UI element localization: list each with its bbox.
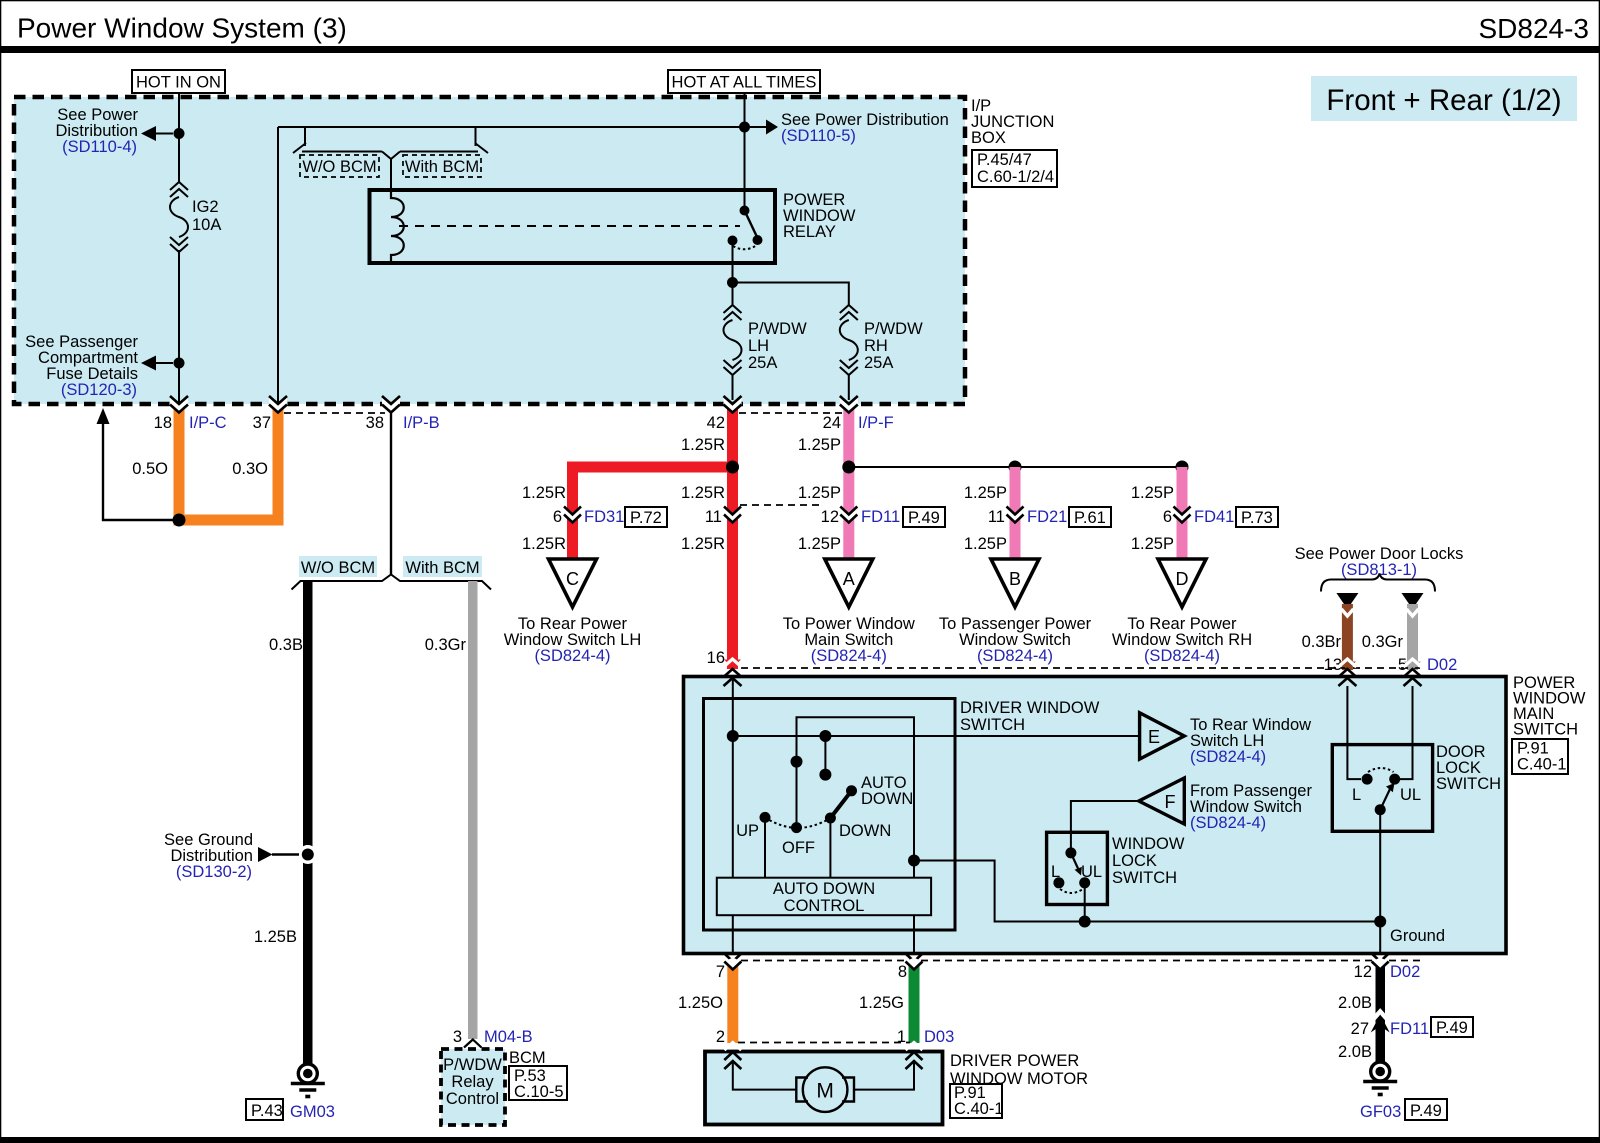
wire 0.3B black down to ground GM03 (303, 581, 313, 1064)
wires into door lock switch (1347, 686, 1361, 779)
wire from connector 38 down to option split (390, 413, 392, 575)
svg-text:P.73: P.73 (1241, 509, 1273, 527)
I/P junction box (dashed light-blue box) (14, 97, 965, 404)
connector pin 24 I/P-F (823, 396, 894, 432)
connector D03 dashed link (738, 1042, 910, 1044)
wire: WLS output to ground bus (1084, 883, 1086, 922)
svg-text:LH: LH (748, 337, 769, 355)
svg-text:1.25P: 1.25P (964, 535, 1007, 553)
wire: bus to triangle E (733, 735, 1140, 737)
svg-text:42: 42 (707, 414, 725, 432)
wire: contact stub (824, 736, 826, 775)
svg-text:UP: UP (736, 822, 759, 840)
svg-text:D03: D03 (924, 1028, 954, 1046)
svg-text:0.3Gr: 0.3Gr (1362, 633, 1404, 651)
svg-text:M: M (816, 1080, 834, 1103)
svg-text:Power Window System (3): Power Window System (3) (17, 13, 347, 44)
svg-text:0.3O: 0.3O (232, 460, 268, 478)
connector D02/D03 dashed line (bottom of main switch) (741, 960, 1420, 962)
svg-text:P/WDW: P/WDW (864, 320, 923, 338)
connector pin 8 (898, 954, 923, 982)
in-line connector 11 FD21 P.61 (988, 507, 1111, 528)
svg-text:16: 16 (707, 649, 725, 667)
svg-text:FD41: FD41 (1194, 508, 1234, 526)
svg-text:C.10-5: C.10-5 (514, 1083, 564, 1101)
wire 1.25P pink (24 down to A) (843, 402, 854, 559)
svg-text:P.49: P.49 (1410, 1102, 1442, 1120)
svg-text:RELAY: RELAY (783, 223, 836, 241)
svg-text:1.25R: 1.25R (681, 436, 725, 454)
svg-text:P/WDW: P/WDW (748, 320, 807, 338)
svg-text:(SD824-4): (SD824-4) (1190, 814, 1266, 832)
node: junction dot at relay feed (739, 122, 750, 133)
svg-text:(SD824-4): (SD824-4) (534, 647, 610, 665)
svg-text:1.25P: 1.25P (1131, 484, 1174, 502)
connector pin 3 M04-B (453, 1028, 533, 1048)
svg-text:P.49: P.49 (908, 509, 940, 527)
node: red junction dot (726, 461, 739, 474)
svg-text:AUTO DOWN: AUTO DOWN (773, 880, 875, 898)
power window main switch box (684, 674, 1586, 954)
svg-text:1.25O: 1.25O (678, 994, 723, 1012)
svg-text:Control: Control (446, 1090, 499, 1108)
wire: outputs to connectors 7/8 (732, 915, 734, 953)
wire: vertical x=278 down to connector 37 (277, 127, 279, 402)
node: see power distribution tap (SD110-4) (55, 106, 184, 156)
wire 1.25R red main (42 down to 16) (727, 402, 738, 669)
svg-text:0.3Br: 0.3Br (1302, 633, 1342, 651)
svg-text:25A: 25A (864, 354, 893, 372)
option bracket W/O BCM / With BCM (lower) (292, 575, 492, 590)
fuse P/WDW LH 25A (724, 305, 808, 400)
in-line connector 27 FD11 P.49 (up) (1351, 1012, 1473, 1039)
svg-text:10A: 10A (192, 216, 221, 234)
svg-text:W/O BCM: W/O BCM (301, 559, 375, 577)
connector pin 12 D02 (1354, 954, 1421, 982)
node: dots on feed bus (727, 730, 739, 742)
svg-text:C.40-1: C.40-1 (954, 1100, 1004, 1118)
door lock switch contacts (1352, 768, 1421, 815)
in-line connector 6 FD31 P.72 (553, 507, 667, 528)
svg-text:CONTROL: CONTROL (784, 897, 865, 915)
node: see passenger compartment fuse details tap (SD120-3) (25, 333, 184, 399)
svg-text:0.3Gr: 0.3Gr (425, 636, 467, 654)
svg-text:OFF: OFF (782, 839, 815, 857)
in-line connector 11 (red main) (705, 507, 741, 527)
triangle D to rear power window switch RH (1112, 559, 1252, 665)
triangle F from passenger window switch (1139, 778, 1313, 832)
svg-text:SWITCH: SWITCH (1112, 869, 1177, 887)
svg-text:1.25P: 1.25P (798, 484, 841, 502)
svg-text:SD824-3: SD824-3 (1478, 13, 1589, 44)
power window relay box (370, 190, 856, 263)
svg-text:L: L (1352, 786, 1361, 804)
svg-text:3: 3 (453, 1028, 462, 1046)
window lock switch box (1047, 832, 1185, 904)
HOT AT ALL TIMES label box (668, 70, 820, 93)
svg-text:1.25R: 1.25R (681, 484, 725, 502)
wire: switch loop (797, 717, 915, 953)
svg-text:Ground: Ground (1390, 927, 1445, 945)
pink bus thin wire (849, 466, 1182, 468)
node: pink junction dots (842, 461, 855, 474)
connector dashed link 37-38 (284, 412, 385, 414)
window lock switch contacts (1051, 847, 1102, 893)
svg-text:24: 24 (823, 414, 841, 432)
label With BCM (dashed) (403, 155, 481, 177)
svg-text:FD11: FD11 (861, 508, 900, 526)
svg-text:P.45/47: P.45/47 (977, 151, 1032, 169)
triangle B to passenger power window switch (939, 559, 1092, 665)
svg-text:With BCM: With BCM (405, 158, 479, 176)
door lock switch box (1332, 743, 1501, 831)
connector pin 18 I/P-C (154, 396, 227, 432)
node: junction below relay (727, 277, 738, 288)
svg-text:A: A (843, 569, 855, 589)
svg-text:M04-B: M04-B (484, 1028, 533, 1046)
node: see power distribution tap (SD110-5) (750, 111, 949, 145)
svg-text:C: C (566, 569, 579, 589)
svg-text:2: 2 (716, 1028, 725, 1046)
svg-text:P.43: P.43 (251, 1102, 283, 1120)
svg-text:I/P-F: I/P-F (858, 414, 894, 432)
svg-text:6: 6 (1163, 508, 1172, 526)
svg-text:2.0B: 2.0B (1338, 994, 1372, 1012)
auto down control box (717, 878, 931, 916)
svg-text:1.25P: 1.25P (964, 484, 1007, 502)
svg-text:(SD110-4): (SD110-4) (62, 138, 137, 156)
option bracket W/O BCM / With BCM (top) (278, 127, 488, 192)
svg-text:0.3B: 0.3B (269, 636, 303, 654)
svg-text:18: 18 (154, 414, 172, 432)
svg-text:W/O BCM: W/O BCM (302, 158, 376, 176)
triangle C to rear power window switch LH (504, 559, 642, 665)
svg-text:P.49: P.49 (1436, 1019, 1468, 1037)
wire 0.3Gr gray down to BCM (468, 581, 478, 1039)
connector pin 7 (716, 954, 741, 982)
door lock feed arrow (brown) (1336, 593, 1358, 670)
svg-text:DOWN: DOWN (839, 822, 891, 840)
svg-text:(SD120-3): (SD120-3) (61, 381, 137, 399)
relay coil (391, 192, 404, 261)
svg-text:SWITCH: SWITCH (1436, 775, 1501, 793)
svg-text:UL: UL (1081, 863, 1102, 881)
svg-text:P/WDW: P/WDW (443, 1056, 502, 1074)
svg-text:FD21: FD21 (1027, 508, 1067, 526)
connector pin 1 (motor) (906, 1043, 923, 1070)
wire: switch return bus (914, 861, 1380, 922)
svg-text:P.61: P.61 (1074, 509, 1106, 527)
node: see ground distribution tap (SD130-2) (164, 831, 317, 881)
svg-text:D02: D02 (1427, 656, 1457, 674)
svg-text:HOT IN ON: HOT IN ON (136, 74, 221, 92)
svg-text:38: 38 (366, 414, 384, 432)
svg-text:GF03: GF03 (1360, 1103, 1401, 1121)
svg-text:I/P-B: I/P-B (403, 414, 440, 432)
wire: relay output down (732, 245, 734, 305)
connector dashed link 11-12 (740, 504, 820, 506)
connector D02 dashed line (top of main switch) (741, 667, 1420, 669)
wire 2.0B black to ground GF03 (1376, 963, 1386, 1066)
svg-text:L: L (1051, 863, 1060, 881)
connector pin 42 (707, 396, 742, 432)
door lock feed arrow (gray) (1402, 593, 1424, 670)
svg-text:UL: UL (1400, 786, 1421, 804)
svg-text:SWITCH: SWITCH (960, 716, 1025, 734)
svg-text:7: 7 (716, 963, 725, 981)
svg-text:FD11: FD11 (1390, 1020, 1429, 1038)
svg-text:(SD824-4): (SD824-4) (1190, 748, 1266, 766)
wire 1.25P pink (to D) (1177, 467, 1188, 559)
svg-text:0.5O: 0.5O (132, 460, 168, 478)
svg-text:RH: RH (864, 337, 888, 355)
ground GM03 (246, 1064, 335, 1121)
svg-text:8: 8 (898, 963, 907, 981)
svg-text:D: D (1176, 569, 1189, 589)
svg-text:BOX: BOX (971, 129, 1006, 147)
svg-text:F: F (1165, 792, 1176, 812)
wire 1.25R red branch to C (567, 462, 733, 473)
wire 0.3O orange (273, 402, 284, 525)
triangle E to rear window switch LH (1140, 713, 1312, 766)
svg-text:LOCK: LOCK (1112, 852, 1157, 870)
svg-text:1.25P: 1.25P (1131, 535, 1174, 553)
in-line connector 12 FD11 P.49 (821, 507, 945, 528)
BCM P/WDW relay control box (441, 1049, 567, 1125)
svg-text:6: 6 (553, 508, 562, 526)
svg-text:WINDOW: WINDOW (1112, 835, 1185, 853)
driver power window motor box (705, 1052, 1088, 1125)
svg-text:DRIVER POWER: DRIVER POWER (950, 1052, 1079, 1070)
svg-text:SWITCH: SWITCH (1513, 721, 1578, 739)
svg-text:DRIVER WINDOW: DRIVER WINDOW (960, 699, 1100, 717)
wire: HOT AT ALL TIMES feed down (744, 93, 746, 210)
svg-text:(SD824-4): (SD824-4) (1144, 647, 1220, 665)
svg-text:Relay: Relay (451, 1073, 494, 1091)
svg-text:1.25P: 1.25P (798, 436, 841, 454)
label W/O BCM (highlight) (299, 556, 377, 577)
svg-text:DOWN: DOWN (861, 790, 913, 808)
svg-text:(SD110-5): (SD110-5) (781, 127, 856, 145)
wire 1.25G green to motor (909, 963, 920, 1043)
svg-text:(SD130-2): (SD130-2) (176, 863, 252, 881)
fuse P/WDW RH 25A (840, 305, 923, 400)
I/P JUNCTION BOX label (971, 97, 1054, 147)
svg-text:2.0B: 2.0B (1338, 1043, 1372, 1061)
svg-text:11: 11 (705, 508, 722, 526)
see power door locks reference (1295, 545, 1464, 592)
wire orange bottom link (174, 515, 284, 526)
connector pin 5 (gray wire into switch) (1404, 659, 1422, 686)
label W/O BCM (dashed) (300, 155, 379, 177)
Front + Rear (1/2) banner (1311, 76, 1577, 121)
svg-text:C.60-1/2/4: C.60-1/2/4 (977, 168, 1054, 186)
svg-text:P.72: P.72 (630, 509, 662, 527)
svg-text:D02: D02 (1390, 963, 1420, 981)
driver window switch inner box (704, 699, 1100, 931)
svg-text:FD31: FD31 (584, 508, 624, 526)
fuse IG2 10A (170, 182, 221, 252)
relay linkage (dashed) (399, 225, 740, 227)
wire: branch bus at y=127 from x=278 to relay feed (278, 126, 745, 128)
svg-text:IG2: IG2 (192, 198, 219, 216)
wire 0.5O orange (174, 402, 185, 525)
wire: F to window lock switch (1071, 801, 1139, 853)
wire: feed into switch (732, 680, 734, 878)
svg-text:With BCM: With BCM (405, 559, 479, 577)
svg-text:12: 12 (1354, 963, 1372, 981)
relay switch (728, 206, 763, 250)
wire: black return with up arrow (97, 408, 180, 520)
svg-text:(SD824-4): (SD824-4) (811, 647, 887, 665)
svg-text:B: B (1009, 569, 1021, 589)
svg-text:E: E (1148, 727, 1160, 747)
connector pin 16 (red wire into switch) (724, 659, 742, 686)
svg-text:25A: 25A (748, 354, 777, 372)
motor M (733, 1063, 914, 1112)
svg-text:GM03: GM03 (290, 1103, 335, 1121)
node: orange junction dot (173, 514, 186, 527)
wire: HOT IN ON down to fuse IG2 and connector 18 (178, 93, 180, 182)
wire 1.25P pink (to B) (1010, 467, 1021, 559)
svg-text:1.25R: 1.25R (522, 535, 566, 553)
label With BCM (highlight) (403, 556, 482, 577)
svg-text:C.40-1: C.40-1 (1517, 756, 1567, 774)
driver switch contacts (736, 774, 913, 878)
svg-text:27: 27 (1351, 1020, 1369, 1038)
svg-text:I/P-C: I/P-C (189, 414, 227, 432)
in-line connector 6 FD41 P.73 (1163, 507, 1278, 528)
connector pin 37 (253, 396, 287, 432)
wire 1.25O orange to motor (727, 963, 738, 1043)
svg-text:1.25R: 1.25R (681, 535, 725, 553)
triangle A to power window main switch (783, 559, 915, 665)
connector dashed link 42-24 (739, 412, 842, 414)
wire: door lock to ground node (1379, 810, 1381, 953)
I/P junction box page ref box P.45/47 C.60-1/2/4 (972, 150, 1057, 187)
connector pin 38 I/P-B (366, 396, 440, 432)
svg-text:12: 12 (821, 508, 839, 526)
connector pin 2 (motor) (724, 1043, 741, 1070)
svg-text:1.25B: 1.25B (254, 928, 297, 946)
wire: branch to fuse RH (733, 283, 849, 306)
svg-text:1.25G: 1.25G (859, 994, 904, 1012)
svg-text:1.25P: 1.25P (798, 535, 841, 553)
svg-text:Front + Rear (1/2): Front + Rear (1/2) (1326, 84, 1561, 117)
svg-text:(SD824-4): (SD824-4) (977, 647, 1053, 665)
ground GF03 (1360, 1062, 1447, 1121)
svg-text:HOT AT ALL TIMES: HOT AT ALL TIMES (672, 74, 817, 92)
svg-text:1.25R: 1.25R (522, 484, 566, 502)
svg-text:37: 37 (253, 414, 271, 432)
HOT IN ON label box (132, 70, 225, 93)
svg-text:11: 11 (988, 508, 1005, 526)
svg-text:BCM: BCM (509, 1049, 546, 1067)
connector pin 13 (brown wire into switch) (1338, 659, 1356, 686)
